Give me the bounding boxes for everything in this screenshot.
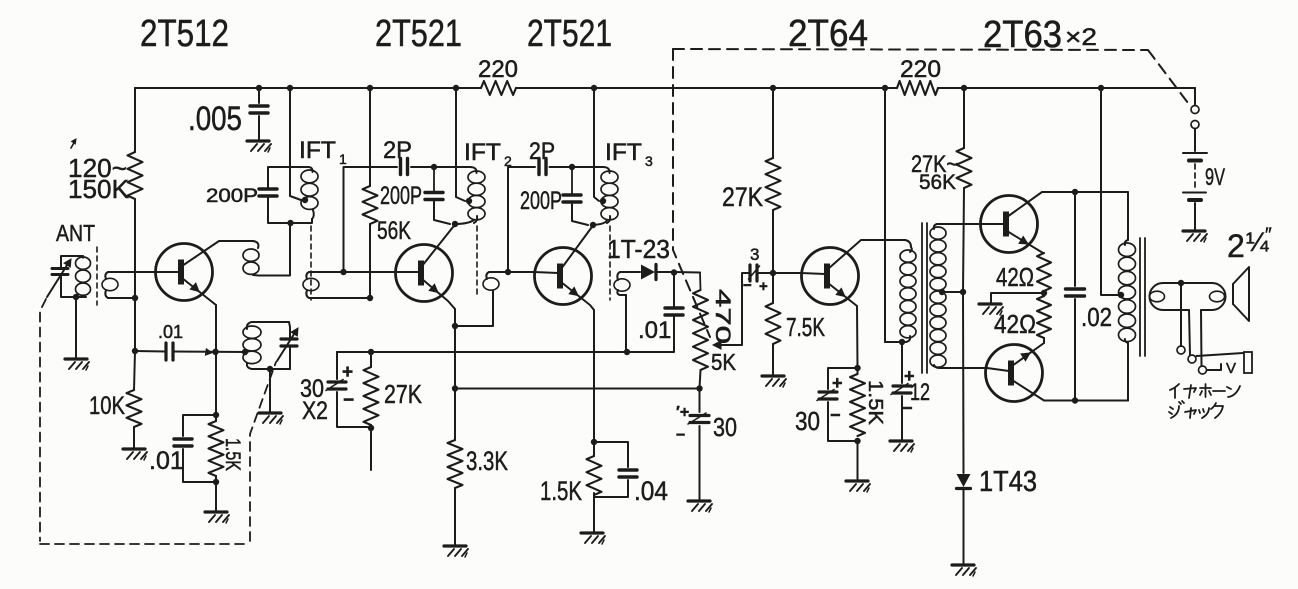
resistor 1.5K Q1 — [209, 421, 224, 476]
svg-text:IFT: IFT — [299, 137, 336, 164]
node Q4 base junction — [770, 270, 776, 276]
wire Q3 collector — [561, 226, 593, 270]
svg-text:″: ″ — [1265, 225, 1272, 246]
wire output core — [1139, 238, 1141, 356]
resistor 10K — [127, 390, 142, 427]
svg-text:.01: .01 — [149, 447, 184, 475]
node 27K top junction — [368, 349, 374, 355]
wire 2P to IFT2 node — [411, 166, 434, 168]
wire IFT3 core dashed — [609, 226, 611, 300]
node IFT2 top junction — [431, 164, 437, 170]
resistor 120~150K — [128, 152, 143, 199]
wire AVC node to 3.3K — [454, 388, 456, 440]
coil IFT1 secondary — [303, 278, 319, 290]
resistor 42ohm lower — [1037, 296, 1051, 338]
wire main supply rail — [135, 87, 481, 89]
wire Q2 base lead — [395, 271, 419, 273]
node .02 bottom junction — [1072, 397, 1078, 403]
svg-text:30: 30 — [795, 406, 820, 436]
resistor 3.3K — [448, 440, 463, 488]
wire .005 to ground — [258, 116, 260, 141]
svg-text:−: − — [743, 277, 752, 294]
node Q3 emitter RC junction — [591, 439, 597, 445]
wire output primary right top — [1127, 192, 1129, 240]
wire battery to ground — [1194, 203, 1196, 230]
node rail junction output transformer feed — [1098, 85, 1104, 91]
wire 27K~56K to tap — [963, 188, 964, 292]
ground tank — [259, 411, 281, 414]
wire tank to ground — [269, 369, 271, 412]
wire 1.5K stubs Q4 — [857, 368, 859, 374]
ground 3.3K — [444, 544, 466, 547]
coil IFT1 primary — [301, 170, 318, 183]
wire 200P top to coil — [268, 167, 313, 189]
ground volume 30 — [688, 499, 710, 502]
node Q2 collector junction — [452, 221, 458, 227]
wire 2P second to IFT3 node — [550, 166, 573, 168]
capacitor tank variable — [281, 337, 297, 340]
wire Q4 emitter — [828, 283, 857, 306]
wire to 30x2 cap — [336, 352, 338, 379]
node Q4 RC bottom junction — [854, 438, 860, 444]
wire IFT1 core dashed — [310, 226, 312, 300]
svg-text:2T521: 2T521 — [375, 13, 462, 55]
wire Q1 RC to ground — [215, 482, 217, 511]
svg-text:1.5K: 1.5K — [540, 476, 582, 506]
ground 7.5K — [762, 374, 784, 377]
wire Q5 collector — [1007, 192, 1128, 217]
node speaker cable junction — [1178, 280, 1184, 286]
coil oscillator feedback — [253, 241, 258, 248]
wire RC left branch Q4 — [828, 368, 858, 389]
wire jack terminal — [1207, 364, 1221, 370]
ground 12 cap — [890, 439, 912, 442]
svg-text:.01: .01 — [158, 322, 183, 342]
wire tank gang arrow — [277, 331, 296, 361]
coil antenna — [76, 257, 91, 269]
wire AVC line — [455, 388, 699, 390]
svg-text:42Ω: 42Ω — [994, 309, 1036, 339]
svg-text:56K: 56K — [377, 217, 411, 245]
node AVC junction — [452, 385, 458, 391]
wire 30 cap to ground — [699, 426, 701, 500]
wire rail to 56K — [369, 88, 371, 186]
svg-text:.005: .005 — [188, 100, 242, 138]
wire 12 cap to ground — [901, 396, 903, 440]
wire Q4 RC to ground — [857, 441, 859, 480]
transistor Q1 2T512 — [156, 244, 213, 301]
svg-text:1: 1 — [339, 151, 347, 167]
coil driver secondary — [934, 224, 937, 229]
wire wiper to 3 cap — [746, 272, 750, 274]
wire Q6 base lead — [987, 368, 1009, 371]
wire 1.5K Q1 stubs — [215, 415, 217, 421]
wire 7.5K to ground — [772, 344, 774, 375]
wire output primary right bottom — [1127, 343, 1129, 401]
wire jack contact 2 — [1188, 355, 1196, 363]
coil IFT3 primary — [601, 171, 618, 183]
svg-text:3.3K: 3.3K — [466, 446, 508, 476]
speaker 2.25 inch — [1232, 284, 1234, 304]
node 2P tap on Q3 base — [505, 269, 511, 275]
wire Q5 base lead — [982, 223, 1004, 225]
transistor Q5 2T63 upper — [981, 196, 1038, 253]
capacitor 2P second — [537, 159, 540, 175]
coil antenna secondary — [102, 278, 118, 290]
coil IFT3 secondary — [614, 279, 630, 291]
wire jack lead 1 — [1180, 283, 1182, 346]
resistor 42ohm upper — [1037, 253, 1051, 291]
svg-text:27K: 27K — [722, 182, 763, 212]
wire driver core — [921, 223, 923, 373]
wire IFT3 coil bottom to collector node — [593, 220, 607, 225]
node rail junction IFT2 feed — [453, 85, 459, 91]
label earphone イヤホーン — [1170, 384, 1179, 398]
wire rail to .005 — [258, 88, 260, 103]
svg-text:ANT: ANT — [56, 220, 95, 246]
ground .005 — [247, 139, 269, 142]
node Q1 RC bottom junction — [213, 479, 219, 485]
wire rail to 27K — [772, 88, 774, 158]
svg-text:−: − — [830, 405, 841, 425]
wire ANT core dashed — [96, 247, 98, 305]
node rail junction at .005 — [256, 85, 262, 91]
svg-text:3: 3 — [750, 245, 759, 264]
node IFT2 tap — [466, 198, 472, 204]
wire rail to IFT1 tap — [290, 88, 301, 200]
wire Q3 base lead — [534, 272, 558, 273]
node 56K junction — [367, 295, 373, 301]
node secondary tap — [939, 289, 945, 295]
wire rail to output tap — [1101, 88, 1119, 295]
wire Q4 emitter down — [856, 306, 859, 368]
node detector low junction — [624, 349, 630, 355]
wire .01 emitter bottom — [183, 449, 216, 482]
svg-text:220: 220 — [900, 56, 941, 83]
wire 42ohm junction — [1043, 291, 1045, 296]
wire jack body — [1244, 352, 1252, 373]
node 27K bottom junction — [368, 425, 374, 431]
wire antenna tank top — [61, 256, 83, 268]
node antenna ground junction — [73, 294, 79, 300]
capacitor 2P first — [399, 159, 402, 175]
ground antenna — [65, 357, 87, 360]
svg-text:1T43: 1T43 — [979, 466, 1037, 498]
wire Q3 emitter down — [593, 310, 595, 442]
ground battery — [1183, 229, 1205, 232]
wire tank bottom — [252, 368, 290, 370]
resistor 27K~56K — [957, 148, 972, 188]
wire Q1 emitter down — [215, 305, 217, 415]
wire Q1 base lead — [156, 271, 179, 273]
node rail junction 27K~56K — [961, 85, 967, 91]
switch contact lower — [1191, 121, 1199, 129]
wire IFT1 secondary bottom — [309, 297, 370, 299]
capacitor 200P IFT3 — [563, 193, 581, 196]
ground 42ohm mid — [979, 302, 1001, 305]
node rail junction IFT1 feed — [287, 85, 293, 91]
wire .01 to tank — [173, 351, 245, 354]
svg-text:470: 470 — [711, 289, 734, 344]
wire .01 to low line — [628, 315, 674, 352]
wire 200P bottom to coil bottom — [268, 196, 312, 223]
wire detector junction to .01 — [673, 273, 675, 309]
resistor 27K first — [364, 367, 379, 425]
svg-text:.02: .02 — [1081, 302, 1112, 332]
wire secondary bottom to bias node — [108, 297, 135, 299]
wire diode to junction — [656, 271, 674, 273]
capacitor .01 detector — [665, 306, 683, 309]
coil IFT2 secondary — [483, 278, 499, 290]
wire rail to 120~150K — [134, 88, 136, 152]
svg-text:27K: 27K — [384, 379, 423, 409]
capacitor .01 emitter — [174, 437, 192, 440]
svg-text:1.5K: 1.5K — [864, 380, 886, 426]
node tank ground junction — [267, 366, 273, 372]
wire IFT3 secondary to diode — [620, 271, 640, 273]
wire secondary top to Q5 base — [937, 223, 982, 225]
capacitor antenna variable — [52, 267, 68, 270]
wire rail to 27K~56K — [963, 88, 965, 148]
wire 3.3K to ground — [454, 488, 456, 545]
wire osc coil to IFT1 bottom — [259, 224, 290, 276]
svg-text:9V: 9V — [1205, 164, 1225, 191]
node primary bottom junction — [899, 339, 905, 345]
wire common line — [337, 351, 628, 353]
wire 27K stubs — [370, 352, 372, 367]
capacitor .02 — [1066, 287, 1085, 290]
svg-text:+: + — [832, 373, 843, 393]
wire Q6 emitter — [1012, 343, 1044, 366]
wire 30x2 to bottom — [337, 392, 371, 427]
wire battery middle dashed — [1194, 164, 1196, 190]
wire antenna to ground — [75, 297, 77, 358]
coil output primary — [1125, 240, 1128, 245]
wire secondary to Q1 base — [108, 271, 156, 273]
wire switch link dashed — [673, 49, 1188, 103]
node Q1 RC top junction — [213, 412, 219, 418]
node rail junction IFT3 feed — [591, 85, 597, 91]
svg-text:200P: 200P — [380, 182, 422, 210]
node rail junction transformer feed — [882, 85, 888, 91]
capacitor 30 electrolytic Q4 — [819, 390, 837, 393]
wire Q1 RC left branch — [183, 415, 216, 436]
svg-text:2T521: 2T521 — [527, 13, 612, 55]
svg-text:′+: ′+ — [676, 404, 689, 421]
wire .02 branch — [1074, 192, 1076, 286]
svg-text:30: 30 — [713, 412, 737, 442]
resistor 220 second — [897, 81, 938, 95]
svg-text:200P: 200P — [206, 186, 258, 207]
node tap to bias line — [960, 289, 966, 295]
battery 9V cell2 — [1183, 192, 1206, 194]
wire mid to ground — [991, 293, 1044, 303]
svg-text:2P: 2P — [529, 138, 555, 165]
wire Q2 emitter to AVC node — [454, 326, 456, 388]
wire Q6 emitter stub — [1043, 338, 1045, 343]
wire 3 cap to Q4 base — [757, 272, 801, 274]
coil driver primary — [910, 247, 912, 252]
capacitor 30 electrolytic AVC — [690, 414, 709, 417]
node tank coil junction — [242, 349, 248, 355]
svg-text:2: 2 — [1227, 228, 1245, 264]
wire volume link dashed — [673, 49, 710, 337]
capacitor .005 — [250, 104, 268, 107]
transistor Q3 2T521 — [535, 248, 592, 305]
svg-text:−: − — [902, 398, 913, 418]
svg-text:3: 3 — [645, 153, 653, 169]
wire jack stem left — [1189, 310, 1190, 355]
svg-text:1.5K: 1.5K — [221, 438, 244, 471]
wire IFT3 top — [572, 167, 610, 173]
node Q4 emitter RC junction — [854, 365, 860, 371]
wire 56K to secondary bottom — [369, 224, 371, 298]
coil oscillator tank — [247, 322, 252, 329]
capacitor 200P IFT2 — [425, 191, 443, 194]
resistor 220 first — [481, 81, 516, 95]
svg-text:5K: 5K — [711, 349, 737, 375]
node detector junction — [671, 269, 677, 275]
wire jack stem right — [1200, 310, 1203, 366]
wire pot wiper — [718, 273, 746, 345]
wire rail to IFT3 tap — [594, 88, 599, 201]
wire jack contact 3 — [1199, 366, 1207, 374]
ground 10K — [123, 447, 145, 450]
wire Q1 emitter — [182, 278, 216, 305]
resistor 1.5K Q4 — [850, 374, 865, 436]
wire 27K to base — [772, 210, 774, 273]
svg-text:−: − — [676, 427, 685, 444]
node bias/.01 junction — [132, 348, 138, 354]
capacitor .01 osc — [164, 343, 167, 360]
resistor 1.5K Q3 — [587, 456, 602, 495]
wire 1.5K to ground — [593, 493, 595, 532]
svg-text:X2: X2 — [302, 397, 328, 425]
svg-text:IFT: IFT — [464, 139, 501, 166]
capacitor 30x2 electrolytic — [328, 380, 346, 383]
transistor Q2 2T521 — [396, 245, 453, 302]
wire gang link dashed — [40, 299, 276, 544]
coil IFT2 primary — [468, 171, 485, 183]
coil output secondary loop — [1150, 291, 1165, 302]
wire Q5 emitter — [1007, 231, 1043, 253]
node pot bottom junction — [696, 385, 702, 391]
wire Q3 emitter — [561, 282, 594, 310]
wire 10K to ground — [133, 427, 135, 449]
label jack ジャック — [1169, 401, 1184, 418]
wire 200P to Q2 collector node — [434, 200, 450, 225]
ground Q4 emitter — [846, 479, 868, 482]
wire 12 cap — [901, 342, 903, 383]
svg-text:2T512: 2T512 — [140, 13, 229, 55]
wire tap to 1T43 — [962, 292, 965, 473]
node rail junction 27K — [770, 85, 776, 91]
wire Q2 emitter — [422, 279, 455, 309]
wire Q4 base lead — [801, 273, 825, 274]
svg-text:1T-23: 1T-23 — [607, 234, 670, 264]
switch contact upper — [1191, 106, 1199, 114]
wire rail to switch — [1194, 88, 1196, 105]
wire IFT2 secondary to Q3 base — [489, 271, 534, 273]
wire switch to battery — [1194, 129, 1196, 152]
coil speaker voice coil — [1210, 291, 1225, 302]
node Q3 collector junction — [590, 222, 596, 228]
wire rail feed down — [884, 88, 886, 342]
node IFT3 tap — [600, 198, 606, 204]
wire IFT1 secondary to Q2 base — [309, 271, 395, 273]
wire speaker cable — [1150, 283, 1226, 310]
wire rail to IFT2 tap — [456, 88, 465, 201]
wire Q4 collector — [828, 240, 905, 269]
wire Q6 collector — [1012, 380, 1128, 401]
wire IFT2 top — [434, 167, 477, 173]
svg-text:42Ω: 42Ω — [996, 262, 1034, 292]
svg-text:+: + — [759, 278, 768, 295]
wire tank cap to bottom — [289, 346, 291, 369]
wire base to 7.5K — [772, 273, 774, 303]
node output tap — [1118, 292, 1124, 298]
svg-text:200P: 200P — [520, 187, 562, 215]
wire bias node to .01 — [135, 350, 166, 353]
svg-text:.04: .04 — [634, 476, 668, 506]
battery 9V cell1 — [1183, 152, 1207, 154]
wire pot node to 30 cap — [699, 389, 701, 413]
svg-text:150K: 150K — [68, 174, 130, 204]
node IFT1 tap — [302, 197, 308, 203]
node IFT1 bottom junction — [287, 220, 293, 226]
capacitor 200P IFT1 — [259, 187, 277, 190]
svg-text:.01: .01 — [638, 317, 671, 344]
wire secondary tap — [940, 291, 963, 293]
wire coil bottom to collector node — [455, 220, 474, 224]
svg-text:10K: 10K — [89, 392, 125, 420]
wire secondary bottom to Q6 base — [940, 367, 987, 369]
svg-text:+: + — [904, 366, 915, 386]
svg-text:IFT: IFT — [605, 139, 642, 166]
wire antenna gang arrow — [47, 262, 69, 297]
transistor Q4 2T64 — [802, 248, 859, 305]
svg-text:+: + — [342, 362, 353, 383]
wire 1T43 to ground — [963, 489, 965, 564]
node bias/secondary junction — [132, 295, 138, 301]
svg-text:V: V — [1226, 360, 1236, 377]
resistor volume pot 5K — [699, 273, 702, 291]
node IFT3 top junction — [569, 164, 575, 170]
capacitor .04 — [619, 468, 637, 471]
wire .04 bottom — [594, 480, 628, 497]
wire RC right branch — [594, 442, 628, 467]
wire IFT2 core dashed — [476, 226, 478, 298]
capacitor 3 electrolytic — [748, 265, 751, 281]
wire IFT3 secondary bottom — [620, 294, 626, 296]
wire detector to volume pot — [674, 271, 700, 274]
svg-text:56K: 56K — [919, 171, 956, 194]
ground Q3 emitter — [581, 531, 603, 534]
wire 2P link — [344, 167, 398, 272]
wire jack contact 1 — [1177, 346, 1185, 354]
resistor 27K bias — [766, 158, 781, 210]
wire Q1 collector — [182, 241, 253, 266]
wire 200P to Q3 collector node — [572, 202, 588, 225]
svg-text:−: − — [343, 390, 354, 411]
diode 1T-23 — [641, 265, 655, 280]
svg-text:×2: ×2 — [1065, 24, 1097, 51]
ground 1T43 — [952, 563, 974, 566]
wire emitter to IFT2 secondary — [455, 291, 493, 326]
node Q2 emitter junction — [452, 323, 458, 329]
svg-text:220: 220 — [478, 56, 518, 83]
transistor Q6 2T63 lower — [986, 345, 1043, 402]
